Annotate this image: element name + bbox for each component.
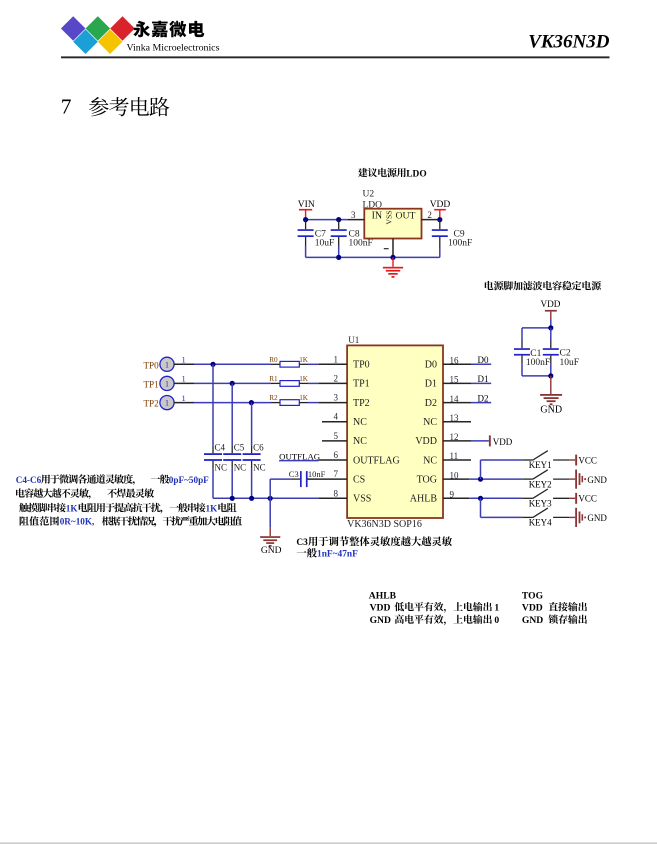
U1 pin 8 stub <box>319 497 348 499</box>
svg-text:D0: D0 <box>425 360 437 371</box>
svg-text:GND: GND <box>370 615 391 626</box>
logo diamond cyan <box>73 29 98 54</box>
section title 参考电路 <box>89 97 169 116</box>
logo diamond red <box>110 16 135 41</box>
resistor R2 <box>271 402 280 404</box>
connector TP0 circle <box>160 357 174 371</box>
svg-text:VCC: VCC <box>578 455 597 465</box>
ground symbol GND (VSS) <box>260 536 280 538</box>
svg-text:Vinka Microelectronics: Vinka Microelectronics <box>127 43 220 54</box>
wire TP0 to R0 <box>174 363 194 365</box>
svg-text:TP2: TP2 <box>144 399 160 409</box>
svg-text:VDD: VDD <box>540 299 560 309</box>
connector TP1 circle <box>160 376 174 390</box>
svg-text:C4: C4 <box>215 442 226 452</box>
capacitor C1 <box>521 328 523 341</box>
svg-text:U2: U2 <box>363 190 375 200</box>
svg-text:C3: C3 <box>296 538 308 548</box>
power flag VIN bar <box>299 209 312 211</box>
U1 pin 16 stub <box>443 363 471 365</box>
svg-text:6: 6 <box>334 450 339 460</box>
wire TOG up to KEY1 <box>480 460 482 479</box>
svg-text:KEY1: KEY1 <box>529 460 552 470</box>
svg-text:GND: GND <box>587 513 607 523</box>
svg-text:VK36N3D: VK36N3D <box>528 32 610 53</box>
wire AHLB pin 9 <box>469 497 522 499</box>
svg-text:D1: D1 <box>425 379 437 390</box>
wire TP0 branch down to C4 <box>212 364 214 445</box>
svg-text:GND: GND <box>522 615 543 626</box>
junction VDD node <box>437 217 442 222</box>
wire net D1 <box>471 382 491 384</box>
wire R0 to U1 pin 1 <box>308 363 319 365</box>
U1 pin 5 stub (NC) <box>322 440 347 442</box>
svg-text:VDD: VDD <box>430 200 451 210</box>
svg-text:10uF: 10uF <box>315 238 335 248</box>
svg-text:0: 0 <box>494 615 499 626</box>
capacitor C2 <box>550 328 552 341</box>
svg-text:C3: C3 <box>289 469 299 479</box>
junction C8 bottom <box>336 255 341 260</box>
junction VSS/C6 <box>249 496 254 501</box>
U1 pin 3 stub <box>319 402 348 404</box>
wire TP1 branch down to C5 <box>231 383 233 445</box>
svg-text:VDD: VDD <box>415 436 437 447</box>
svg-text:10nF: 10nF <box>308 469 326 479</box>
wire VDD to C1 top <box>522 327 551 329</box>
junction VSS/C5 <box>230 496 235 501</box>
svg-text:NC: NC <box>423 455 437 466</box>
svg-text:R2: R2 <box>269 394 278 402</box>
svg-text:1K: 1K <box>66 503 79 513</box>
svg-text:TP1: TP1 <box>353 379 370 390</box>
capacitor C7 <box>305 220 307 230</box>
U1 pin 1 stub <box>319 363 348 365</box>
U1 pin 10 stub <box>443 478 469 480</box>
svg-text:OUT: OUT <box>396 211 416 222</box>
svg-text:VDD: VDD <box>493 437 513 447</box>
U1 pin 13 stub <box>443 421 471 423</box>
U1 pin 9 stub <box>443 497 469 499</box>
svg-text:KEY3: KEY3 <box>529 499 552 509</box>
svg-text:C4-C6: C4-C6 <box>16 475 42 485</box>
svg-text:5: 5 <box>334 431 339 441</box>
svg-text:1: 1 <box>165 399 169 408</box>
note 电源脚加滤波电容稳定电源 <box>485 281 601 290</box>
annotation 1K line 2 <box>20 516 59 525</box>
svg-text:CS: CS <box>353 474 365 485</box>
svg-text:TP0: TP0 <box>144 360 160 370</box>
wire C6 to VSS rail <box>251 469 253 498</box>
junction VDD/C2 top <box>548 325 553 330</box>
wire VSS rail <box>213 497 319 499</box>
junction AHLB branch <box>478 496 483 501</box>
capacitor C6 <box>243 453 261 455</box>
svg-text:1: 1 <box>181 374 185 384</box>
resistor R0 <box>271 363 280 365</box>
svg-text:LDO: LDO <box>406 169 426 179</box>
svg-text:7: 7 <box>334 469 339 479</box>
svg-text:R0: R0 <box>269 356 278 364</box>
wire R1 to U1 pin 2 <box>308 382 319 384</box>
svg-text:3: 3 <box>351 210 356 220</box>
junction C2 bottom <box>548 373 553 378</box>
capacitor C4 <box>204 453 222 455</box>
header rule <box>61 56 610 58</box>
power bar VCC (KEY3) <box>569 497 575 499</box>
U1 pin 2 stub <box>319 382 348 384</box>
svg-text:100nF: 100nF <box>349 238 373 248</box>
svg-text:100nF: 100nF <box>448 238 472 248</box>
logo diamond green <box>86 16 111 41</box>
svg-text:C5: C5 <box>234 442 245 452</box>
svg-text:AHLB: AHLB <box>410 494 438 505</box>
svg-text:1: 1 <box>334 354 339 364</box>
svg-text:R1: R1 <box>269 375 278 383</box>
svg-text:TOG: TOG <box>522 591 544 602</box>
ground symbol GND (decoupling) <box>550 376 552 394</box>
wire net D2 <box>471 402 491 404</box>
svg-text:2: 2 <box>427 210 432 220</box>
footer rule <box>0 842 657 844</box>
junction TP0 branch <box>210 362 215 367</box>
power bar VDD (pin 12) <box>489 435 491 446</box>
svg-text:10uF: 10uF <box>560 358 580 368</box>
svg-text:TP0: TP0 <box>353 360 370 371</box>
logo diamond purple <box>61 16 86 41</box>
svg-text:GND: GND <box>261 546 282 556</box>
power flag VDD bar (decoupling) <box>545 310 557 312</box>
svg-text:VK36N3D SOP16: VK36N3D SOP16 <box>347 519 422 530</box>
switch KEY2 <box>522 478 533 480</box>
svg-text:VDD: VDD <box>370 602 391 613</box>
svg-text:1: 1 <box>165 360 169 369</box>
svg-text:KEY4: KEY4 <box>529 518 552 528</box>
U1 pin 15 stub <box>443 382 471 384</box>
U2 pin 3 stub <box>348 219 364 221</box>
note 建议电源用LDO <box>358 168 406 177</box>
svg-text:1: 1 <box>181 393 185 403</box>
logo text 永嘉微电 <box>133 21 204 38</box>
svg-text:NC: NC <box>423 417 437 428</box>
svg-text:1K: 1K <box>299 375 309 383</box>
wire C3 to U1 pin 7 (stub) <box>308 478 348 480</box>
svg-text:D2: D2 <box>425 398 437 409</box>
U1 pin 14 stub <box>443 402 471 404</box>
svg-text:VIN: VIN <box>298 200 315 210</box>
junction TP1 branch <box>230 381 235 386</box>
svg-text:3: 3 <box>334 393 339 403</box>
capacitor C9 <box>439 220 441 230</box>
logo diamond yellow <box>98 29 123 54</box>
junction TOG branch <box>478 477 483 482</box>
svg-text:KEY2: KEY2 <box>529 479 552 489</box>
svg-text:1K: 1K <box>299 394 309 402</box>
wire LDO bottom rail <box>306 256 440 258</box>
wire OUTFLAG to U1 pin 6 <box>279 460 319 462</box>
power flag VDD bar (LDO out) <box>434 209 446 211</box>
svg-text:1: 1 <box>181 355 185 365</box>
svg-text:NC: NC <box>215 462 228 472</box>
svg-text:2: 2 <box>334 373 339 383</box>
wire C5 to VSS rail <box>231 469 233 498</box>
capacitor C8 <box>338 220 340 230</box>
U2 ground pin number 1 (dash) <box>384 248 389 249</box>
svg-text:0R~10K,: 0R~10K, <box>60 517 95 527</box>
U1 pin 12 stub <box>443 440 471 442</box>
junction VSS/GND riser <box>268 496 273 501</box>
U2 pin 2 stub <box>422 219 440 221</box>
switch KEY1 <box>522 459 533 461</box>
wire TP2 branch down to C6 <box>251 403 253 446</box>
svg-text:C6: C6 <box>253 442 264 452</box>
wire VSS to ground <box>269 498 271 527</box>
wire TP1 to R1 <box>174 382 194 384</box>
svg-text:GND: GND <box>540 405 562 416</box>
junction ground node <box>390 255 395 260</box>
wire VDD pin 12 <box>471 440 489 442</box>
svg-text:8: 8 <box>334 488 339 498</box>
svg-text:U1: U1 <box>348 335 359 345</box>
ground symbol (LDO) <box>392 257 394 266</box>
svg-text:NC: NC <box>253 462 266 472</box>
svg-text:OUTFLAG: OUTFLAG <box>353 455 400 466</box>
svg-text:VSS: VSS <box>353 494 371 505</box>
switch KEY4 <box>522 516 533 518</box>
svg-text:VSS: VSS <box>385 210 394 224</box>
svg-text:100nF: 100nF <box>526 358 550 368</box>
IC U1 body <box>347 345 443 518</box>
svg-text:AHLB: AHLB <box>369 591 397 602</box>
annotation 1K line 1 <box>19 503 66 512</box>
svg-text:VCC: VCC <box>578 494 597 504</box>
resistor R1 <box>271 382 280 384</box>
U2 ground pin stub <box>392 239 394 258</box>
wire TOG pin 10 <box>469 478 522 480</box>
svg-text:IN: IN <box>372 211 383 222</box>
wire VIN to U2 pin3 <box>306 219 348 221</box>
wire C4 to VSS rail <box>212 469 214 498</box>
wire TP2 to R2 <box>174 402 194 404</box>
ground bar GND (KEY2) <box>569 478 575 480</box>
regulator U2 body <box>364 209 421 239</box>
svg-text:TP1: TP1 <box>144 379 159 389</box>
annotation C3 line 2 <box>297 548 317 558</box>
svg-text:1: 1 <box>494 602 499 613</box>
svg-text:TOG: TOG <box>417 474 437 485</box>
capacitor C3 <box>292 478 300 480</box>
wire net D0 <box>471 363 491 365</box>
wire CS riser <box>269 479 271 498</box>
svg-text:1: 1 <box>165 379 169 388</box>
wire C1 bottom to C2 bottom <box>522 375 551 377</box>
svg-text:NC: NC <box>353 417 367 428</box>
svg-text:VDD: VDD <box>522 602 543 613</box>
junction TP2 branch <box>249 400 254 405</box>
svg-text:GND: GND <box>587 475 607 485</box>
annotation C4-C6 line 2 <box>16 488 89 497</box>
svg-text:0pF~50pF: 0pF~50pF <box>169 475 209 485</box>
svg-text:7: 7 <box>61 94 72 118</box>
svg-text:1K: 1K <box>206 503 219 513</box>
wire R2 to U1 pin 3 <box>308 402 319 404</box>
svg-text:NC: NC <box>234 462 247 472</box>
connector TP2 circle <box>160 396 174 410</box>
power bar VCC (KEY1) <box>569 459 575 461</box>
svg-text:4: 4 <box>334 412 339 422</box>
capacitor C5 <box>223 453 241 455</box>
svg-text:TP2: TP2 <box>353 398 370 409</box>
svg-text:1nF~47nF: 1nF~47nF <box>317 550 358 560</box>
svg-text:NC: NC <box>353 436 367 447</box>
junction VIN node <box>303 217 308 222</box>
switch KEY3 <box>522 497 533 499</box>
U1 pin 4 stub (NC) <box>322 421 347 423</box>
junction C8 top <box>336 217 341 222</box>
svg-text:1K: 1K <box>299 356 309 364</box>
ground bar GND (KEY4) <box>569 516 575 518</box>
U1 pin 6 stub <box>319 459 348 461</box>
U1 pin 11 stub <box>443 459 471 461</box>
wire AHLB down to KEY4 <box>480 498 482 517</box>
